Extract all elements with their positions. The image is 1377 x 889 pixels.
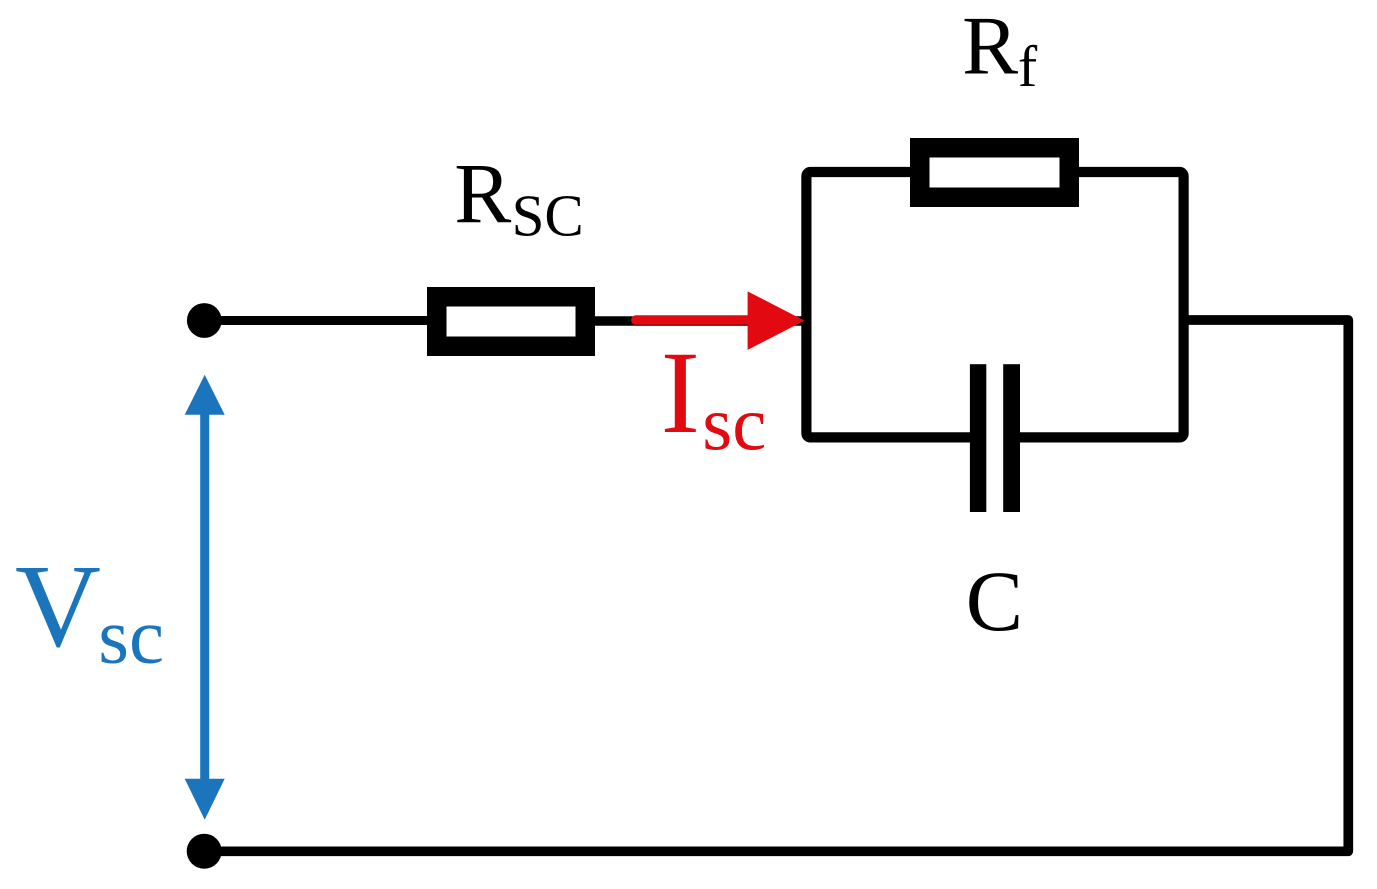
voltage arrow Vsc top head <box>185 375 225 415</box>
svg-text:C: C <box>966 553 1023 649</box>
parallel feedback box (Rf parallel C) <box>806 172 1183 437</box>
capacitor C left plate <box>970 364 986 512</box>
resistor Rf body <box>920 148 1070 198</box>
node B: bottom-left terminal dot <box>187 834 222 869</box>
voltage arrow Vsc shaft (blue) <box>200 410 209 785</box>
current arrow Isc head (red) <box>748 291 805 350</box>
resistor RSC body <box>437 297 586 347</box>
wire: top-left terminal to RSC <box>204 316 440 325</box>
capacitor C right plate <box>1003 364 1020 512</box>
svg-text:sc: sc <box>702 380 766 466</box>
svg-text:R: R <box>454 147 511 241</box>
svg-text:f: f <box>1018 34 1038 99</box>
white gap between capacitor plates <box>984 358 1006 518</box>
svg-text:R: R <box>962 0 1018 93</box>
svg-text:V: V <box>15 539 101 671</box>
svg-text:SC: SC <box>512 183 584 249</box>
node A: top-left terminal dot <box>187 303 222 338</box>
wire: output from box right side, down and along the bottom to terminal <box>204 320 1348 851</box>
voltage arrow Vsc bottom head <box>185 779 225 820</box>
current arrow Isc shaft (red) <box>636 315 756 325</box>
wire: RSC to feedback box (under current arrow) <box>590 316 806 326</box>
svg-text:I: I <box>661 327 700 458</box>
svg-text:sc: sc <box>98 593 164 680</box>
